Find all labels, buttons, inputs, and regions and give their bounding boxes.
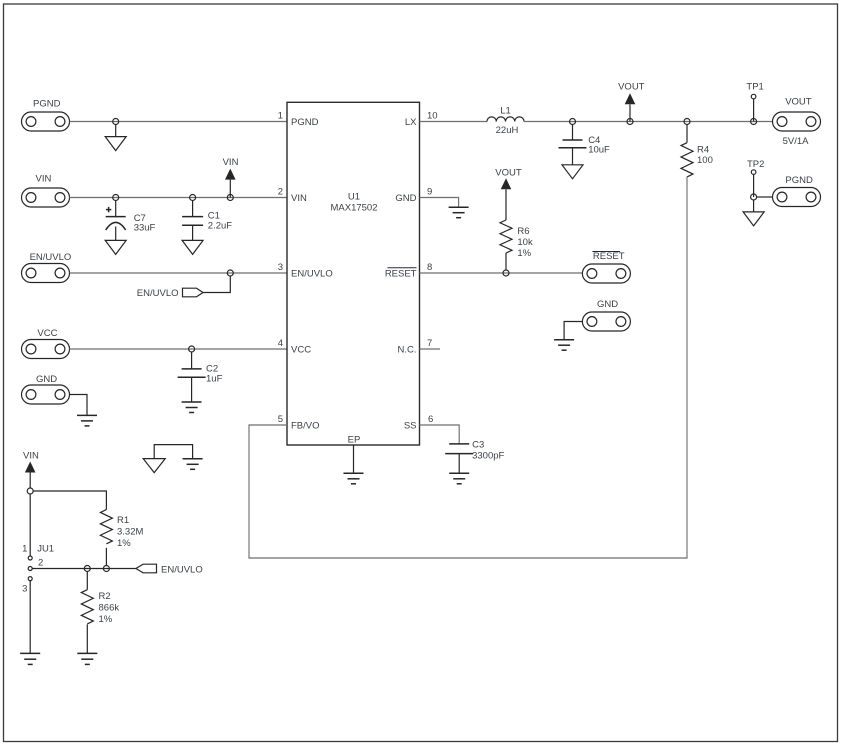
svg-text:FB/VO: FB/VO [291,421,320,432]
svg-text:3: 3 [278,262,283,273]
svg-text:EN/UVLO: EN/UVLO [137,288,179,299]
svg-text:2: 2 [278,187,283,198]
svg-text:N.C.: N.C. [398,345,417,356]
svg-text:3.32M: 3.32M [117,527,143,538]
resistor R6 10k 1% [500,220,533,270]
svg-text:3: 3 [22,584,27,595]
node junction C4 tap [570,119,576,125]
node junction R6 bottom [503,270,509,276]
wire junction to ground [115,125,117,137]
svg-text:EN/UVLO: EN/UVLO [161,565,203,576]
resistor R2 866k 1% [81,572,119,654]
node junction C2 tap [189,346,195,352]
wire TP2 junction to PGND connector [757,196,773,198]
capacitor C2 1uF [178,352,223,402]
svg-text:SS: SS [404,421,417,432]
svg-text:VOUT: VOUT [785,97,812,108]
op-amp? no: IC U1 MAX17502 box [287,102,420,445]
svg-text:U1: U1 [348,192,360,203]
wire EP to ground [353,445,355,473]
resistor R4 100 [681,125,713,177]
svg-text:JU1: JU1 [37,544,54,555]
connector VIN (left) [22,174,70,208]
svg-text:VIN: VIN [291,193,307,204]
node junction C7 tap [113,195,119,201]
svg-text:1%: 1% [117,538,131,549]
svg-text:R6: R6 [517,226,529,237]
jumper JU1 [22,544,54,595]
node junction C1 tap [190,195,196,201]
svg-text:R1: R1 [117,515,129,526]
ground (bars) under GND connector [77,415,97,426]
ground (triangle) under C7 [105,240,126,254]
node junction TP1 tap [751,119,757,125]
svg-text:2: 2 [38,558,43,569]
power flag VIN (bottom left) [23,451,39,489]
svg-text:R2: R2 [99,591,111,602]
ground (bars) at pin 9 [449,207,469,218]
node junction R1 bottom [103,566,109,572]
resistor R1 3.32M 1% [100,510,143,566]
wire VIN connector to pin 2 [70,197,288,199]
svg-text:VIN: VIN [23,451,39,462]
capacitor C4 10uF [559,125,611,165]
svg-text:VCC: VCC [37,328,57,339]
wire VIN junction to JU1 pin 1 [29,494,31,556]
pin 8 RESET label with overline [385,268,417,280]
svg-text:VOUT: VOUT [618,82,645,93]
ground (triangle) under TP2 [743,212,764,226]
svg-text:5: 5 [278,414,283,425]
net label EN/UVLO (left-pointing tag) [136,564,203,575]
svg-text:L1: L1 [500,106,511,117]
svg-text:PGND: PGND [33,99,61,110]
svg-text:VOUT: VOUT [495,168,522,179]
wire JU1 pin 3 to ground [29,581,31,654]
svg-text:VIN: VIN [223,157,239,168]
wire GND connector to ground [70,395,88,416]
svg-text:GND: GND [36,374,57,385]
svg-text:3300pF: 3300pF [472,451,504,462]
wire VIN junction to R1 top [33,491,106,510]
svg-text:9: 9 [427,187,432,198]
svg-text:GND: GND [395,193,416,204]
svg-text:EN/UVLO: EN/UVLO [291,269,333,280]
wire GND connector to ground [564,322,582,340]
svg-text:VCC: VCC [291,345,311,356]
svg-text:EP: EP [348,435,361,446]
net label EN/UVLO (right-pointing tag) [137,288,203,299]
svg-text:5V/1A: 5V/1A [783,136,810,147]
svg-text:4: 4 [278,338,283,349]
connector RESET (with overline label) [582,251,630,283]
ground pair (triangle + bars) tie [143,445,202,473]
capacitor C7 33uF (polarized) [106,201,156,241]
svg-text:33uF: 33uF [134,223,156,234]
svg-text:1: 1 [22,544,27,555]
svg-text:RESET: RESET [385,269,417,280]
svg-text:PGND: PGND [291,117,319,128]
capacitor C1 2.2uF [182,201,232,241]
wire junction down-left to EN/UVLO tag [203,276,230,293]
svg-text:R4: R4 [697,145,709,156]
svg-text:10uF: 10uF [588,145,610,156]
wire L1 to VOUT connector [524,121,773,123]
svg-text:GND: GND [597,299,618,310]
svg-text:2.2uF: 2.2uF [208,220,232,231]
svg-text:100: 100 [697,155,713,166]
ground (bars) under R2 [77,653,97,664]
test point TP2 [747,159,764,197]
svg-text:1%: 1% [517,248,531,259]
node junction R2 top [84,566,90,572]
svg-text:TP1: TP1 [746,82,763,93]
svg-text:8: 8 [427,262,432,273]
connector EN/UVLO (left) [22,252,72,283]
ground (bars) under C3 [449,473,469,484]
svg-text:866k: 866k [99,603,120,614]
wire pin 6 SS to C3 [420,425,460,444]
svg-text:6: 6 [428,414,433,425]
node junction TP2/PGND [751,194,757,200]
wire VCC connector to pin 4 [70,348,288,350]
svg-text:1%: 1% [99,614,113,625]
wire pin 7 N.C. stub [420,348,441,350]
wire pin 10 LX to inductor [420,121,488,123]
svg-text:LX: LX [405,117,417,128]
capacitor C3 3300pF [445,440,504,474]
svg-text:EN/UVLO: EN/UVLO [30,252,72,263]
wire pin 9 GND to ground [420,198,459,208]
ground (bars) under EP [344,473,364,484]
node junction EN/UVLO tag tap [227,270,233,276]
ground (triangle) under C4 [562,165,583,179]
connector GND (left) [22,374,70,404]
connector PGND (left) [22,99,70,132]
node junction VOUT flag tap [627,119,633,125]
wire pin 8 RESET to connector [420,272,583,274]
ground (bars) under JU1 pin 3 [20,653,40,664]
connector PGND (right) [773,175,821,207]
svg-text:10k: 10k [517,237,533,248]
svg-text:7: 7 [427,338,432,349]
wire TP2 junction to ground [753,200,755,212]
wire PGND connector to pin 1 [70,121,288,123]
svg-text:22uH: 22uH [496,125,519,136]
node junction R4 tap [684,119,690,125]
connector VCC (left) [22,328,70,359]
wire JU1 pin 2 to EN/UVLO tag [32,568,136,570]
svg-text:1uF: 1uF [206,374,223,385]
svg-text:RESET: RESET [593,251,625,262]
svg-text:10: 10 [427,111,438,122]
svg-text:PGND: PGND [785,175,813,186]
ground (bars) under right GND connector [554,340,574,351]
power flag VOUT (top) [618,82,645,122]
svg-text:TP2: TP2 [747,159,764,170]
node junction on PGND wire [113,119,119,125]
svg-text:MAX17502: MAX17502 [330,203,377,214]
inductor L1 22uH [487,106,524,137]
power flag VIN (top) [223,157,239,198]
svg-text:1: 1 [278,111,283,122]
node junction VIN flag tap [227,195,233,201]
power flag VOUT (above R6) [495,168,522,221]
test point TP1 [746,82,763,122]
node junction VIN bottom [27,488,33,494]
ground (bars) under C2 [182,402,202,413]
ground (triangle) under C1 [182,240,203,254]
ground (triangle) at PGND wire [105,137,126,151]
wire feedback loop pin 5 FB/VO to R4 bottom [249,177,687,558]
wire EN/UVLO connector to pin 3 [70,272,288,274]
connector VOUT (right) [773,97,821,148]
svg-text:VIN: VIN [36,174,52,185]
connector GND (right) [582,299,630,331]
svg-text:C3: C3 [472,440,484,451]
